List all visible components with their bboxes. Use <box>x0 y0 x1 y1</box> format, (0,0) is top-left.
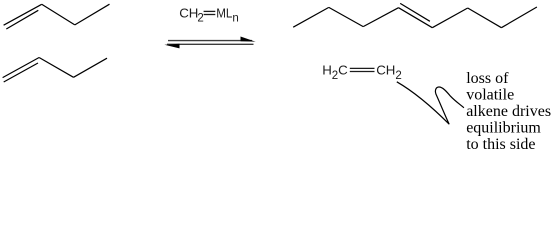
equilibrium arrow top (right harpoon) <box>168 40 252 42</box>
ethylene double bond line top <box>350 67 375 69</box>
svg-text:loss of: loss of <box>466 70 509 87</box>
svg-text:to this side: to this side <box>466 136 535 153</box>
svg-text:CH: CH <box>376 63 395 78</box>
ethylene double bond line bottom <box>350 71 375 73</box>
4-octene chain C3-C4 <box>363 8 398 27</box>
4-octene chain C6-C7 <box>468 8 502 28</box>
svg-text:volatile: volatile <box>466 87 514 104</box>
svg-text:alkene drives: alkene drives <box>466 103 551 120</box>
equilibrium arrow bottom (left harpoon) <box>167 43 254 45</box>
squiggle callout curve <box>397 82 464 124</box>
1-butene (top left) C3-C4 bond <box>75 4 110 25</box>
svg-text:H: H <box>322 63 332 78</box>
1-butene (bottom left) C2-C3 bond <box>39 58 73 78</box>
svg-text:2: 2 <box>395 70 401 82</box>
4-octene chain C1-C2 <box>293 7 329 27</box>
1-butene (top left) C2-C3 bond <box>42 4 75 25</box>
1-butene (bottom left) double bond line 1 <box>3 58 40 78</box>
1-butene (bottom left) C3-C4 bond <box>74 58 108 77</box>
4-octene double bond second line <box>400 3 430 21</box>
svg-text:ML: ML <box>216 6 232 21</box>
svg-text:CH: CH <box>179 6 198 21</box>
catalyst double bond line top <box>204 10 216 12</box>
svg-text:equilibrium: equilibrium <box>466 120 541 137</box>
4-octene chain C7-C8 <box>501 7 537 28</box>
svg-text:C: C <box>338 63 348 78</box>
1-butene (top left) double bond line 2 <box>6 10 38 29</box>
svg-text:2: 2 <box>197 13 203 25</box>
4-octene chain C2-C3 <box>329 7 363 26</box>
1-butene (top left) double bond line 1 <box>4 4 42 25</box>
svg-text:n: n <box>232 13 238 25</box>
catalyst double bond line bottom <box>204 14 216 16</box>
4-octene double bond main line C4-C5 <box>399 8 433 28</box>
4-octene chain C5-C6 <box>432 8 467 28</box>
1-butene (bottom left) double bond line 2 <box>4 63 38 82</box>
